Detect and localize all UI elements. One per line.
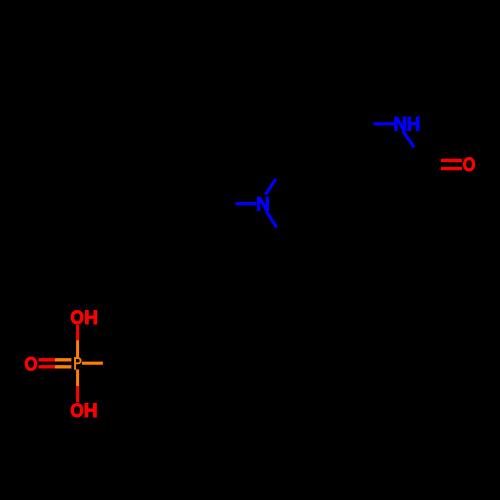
wire: P=O double bond upper red half	[39, 358, 56, 361]
wire: P-OH bottom bond orange half	[76, 369, 79, 386]
svg-text:H: H	[407, 115, 421, 136]
svg-text:H: H	[84, 401, 98, 422]
node OH top label	[70, 307, 83, 328]
node O carbonyl label	[463, 154, 476, 175]
wire: P=O double bond lower red half	[39, 365, 56, 368]
wire: NH left bond stub	[374, 122, 395, 125]
svg-text:O: O	[70, 400, 83, 421]
wire: P=O double bond lower orange half	[55, 365, 71, 368]
wire: P=O double bond upper orange half	[55, 358, 71, 361]
wire: P-OH top bond orange half	[76, 340, 79, 357]
node P label (custom glyph)	[74, 357, 82, 370]
svg-text:N: N	[256, 195, 270, 216]
node O left label	[25, 354, 38, 375]
svg-text:O: O	[70, 307, 83, 328]
svg-text:O: O	[25, 354, 38, 375]
svg-text:N: N	[393, 115, 407, 136]
wire: C=O double bond upper red half	[441, 159, 462, 162]
wire: C=O double bond lower red half	[441, 167, 462, 170]
wire: P-OH bottom bond red half	[76, 386, 79, 402]
wire: NH lower-right bond stub	[403, 131, 414, 147]
wire: N amine left bond stub	[235, 202, 256, 205]
wire: N amine upper-right bond stub	[265, 179, 276, 195]
svg-text:H: H	[84, 308, 98, 329]
svg-text:O: O	[463, 154, 476, 175]
wire: P-CH3 right bond orange half	[82, 362, 103, 365]
wire: P-OH top bond red half	[76, 325, 79, 340]
node OH bottom label	[70, 400, 83, 421]
wire: N amine lower-right bond stub	[266, 211, 276, 227]
